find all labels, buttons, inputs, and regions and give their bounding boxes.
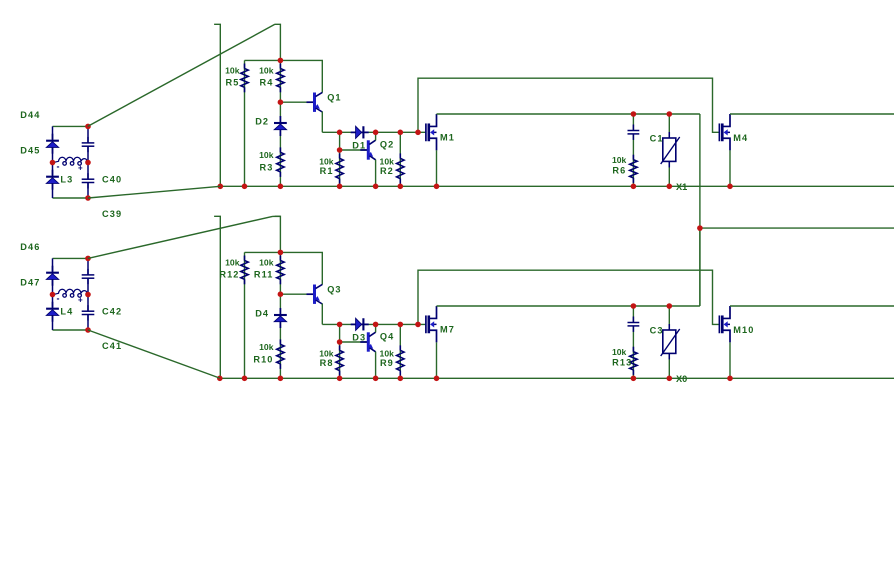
svg-text:10k: 10k xyxy=(380,156,395,166)
node C2 top xyxy=(631,111,637,117)
svg-text:X1: X1 xyxy=(676,182,687,192)
svg-text:X0: X0 xyxy=(676,374,687,384)
wire diagonal bottom rail 1 feed xyxy=(88,186,220,198)
svg-text:10k: 10k xyxy=(225,257,240,267)
node base Q3 xyxy=(278,291,284,297)
wire top row A xyxy=(245,60,323,92)
node bottom emitter Q2 xyxy=(373,184,379,190)
node varistor top C3 xyxy=(667,303,673,309)
wire source of M1 xyxy=(436,150,438,186)
node base Q1 xyxy=(278,99,284,105)
label M4 xyxy=(733,133,748,143)
wire C2 column xyxy=(632,114,634,186)
wire D2-R3 column xyxy=(279,102,281,186)
wire drain row of M1 xyxy=(437,113,700,115)
node bottom R12 xyxy=(242,376,248,382)
svg-text:Q1: Q1 xyxy=(327,93,341,103)
wire C4 column xyxy=(632,306,634,378)
wire R8 column xyxy=(339,324,341,378)
node L3 right xyxy=(85,160,91,166)
wire right column C42a/C42b xyxy=(87,258,89,330)
svg-text:L3: L3 xyxy=(60,175,73,185)
wire emitter of Q3 xyxy=(321,304,323,325)
label R9 xyxy=(380,358,394,368)
wire right column C40a/C40b xyxy=(87,126,89,198)
resistor R4 xyxy=(277,64,284,93)
wire R5 column xyxy=(244,60,246,186)
wire jog node B xyxy=(273,215,281,217)
wire bottom of L4 block xyxy=(53,329,89,331)
mosfet M4 xyxy=(719,114,730,150)
label X1 xyxy=(676,182,687,192)
svg-text:M7: M7 xyxy=(440,324,455,334)
svg-text:D1: D1 xyxy=(352,140,366,150)
label M10 xyxy=(733,325,754,335)
resistor R2 xyxy=(397,153,404,183)
capacitor C42a xyxy=(82,269,95,284)
node top junction A xyxy=(278,58,284,64)
svg-text:10k: 10k xyxy=(259,150,274,160)
node bottom varistor C3 xyxy=(667,376,673,382)
label C40 xyxy=(102,175,122,185)
label D3 xyxy=(352,332,366,342)
wire top of L4 block xyxy=(53,257,89,259)
mosfet M7 xyxy=(426,306,437,342)
svg-text:C41: C41 xyxy=(102,341,122,351)
inductor L4 xyxy=(55,289,87,305)
wire drain of M10 to edge xyxy=(730,305,894,307)
svg-text:D4: D4 xyxy=(255,309,269,319)
wire D4-R10 column xyxy=(279,294,281,378)
wire R1 column xyxy=(339,132,341,186)
transistor Q1 xyxy=(307,92,323,112)
svg-text:Q3: Q3 xyxy=(327,285,341,295)
label C41 xyxy=(102,341,122,351)
transistor Q4 xyxy=(360,332,375,352)
diode D2 xyxy=(274,116,287,136)
resistor R9 xyxy=(397,345,404,375)
node L4 left xyxy=(50,292,56,298)
node R9 top xyxy=(398,322,404,328)
wire R12 column xyxy=(244,252,246,378)
wire long feed B xyxy=(418,270,719,324)
node R2 top xyxy=(398,130,404,136)
label 10k of R13 xyxy=(612,347,627,357)
svg-text:C3: C3 xyxy=(650,325,664,335)
label R6 xyxy=(612,165,626,175)
wire base of Q1 xyxy=(280,101,314,103)
node gate feed M7 xyxy=(415,322,421,328)
node bottom R3 xyxy=(278,184,284,190)
svg-text:R11: R11 xyxy=(254,270,274,280)
node bottom R9 xyxy=(398,376,404,382)
transistor Q2 xyxy=(360,140,375,160)
wire R9 column xyxy=(399,324,401,378)
wire diagonal node A feed xyxy=(88,24,275,126)
label 10k of R2 xyxy=(380,156,395,166)
node C40a top xyxy=(85,124,91,130)
svg-text:-: - xyxy=(57,162,60,172)
node bottom R1 xyxy=(337,184,343,190)
svg-text:D46: D46 xyxy=(20,242,40,252)
node bottom R6 xyxy=(631,184,637,190)
svg-text:10k: 10k xyxy=(612,155,627,165)
label R11 xyxy=(254,270,274,280)
label R2 xyxy=(380,166,394,176)
mosfet M1 xyxy=(426,114,437,150)
wire source of M4 xyxy=(729,150,731,186)
label D44 xyxy=(20,110,40,120)
svg-text:R10: R10 xyxy=(253,354,273,364)
label M1 xyxy=(440,132,455,142)
label L3 xyxy=(60,175,73,185)
diode D46 xyxy=(46,266,59,286)
label 10k of R11 xyxy=(259,257,274,267)
svg-text:10k: 10k xyxy=(612,347,627,357)
svg-text:R13: R13 xyxy=(612,357,632,367)
resistor R6 xyxy=(630,155,637,183)
wire source of M10 xyxy=(729,342,731,378)
label M7 xyxy=(440,324,455,334)
svg-text:R5: R5 xyxy=(226,78,240,88)
node bottom source M4 xyxy=(727,184,733,190)
wire mid junction down to M7 drain row xyxy=(699,228,701,306)
wire drain row of M7 xyxy=(437,305,700,307)
node L3 left xyxy=(50,160,56,166)
svg-text:R12: R12 xyxy=(219,270,239,280)
node bottom source M1 xyxy=(434,184,440,190)
svg-text:D2: D2 xyxy=(255,117,269,127)
node L4 right xyxy=(85,292,91,298)
label R13 xyxy=(612,357,632,367)
resistor R5 xyxy=(241,64,248,93)
node base Q2 xyxy=(337,147,343,153)
wire collector of Q4 xyxy=(375,324,377,332)
wire source of M7 xyxy=(436,342,438,378)
wire bottom rail rail2 xyxy=(220,377,894,379)
svg-text:R6: R6 xyxy=(612,165,626,175)
svg-text:C42: C42 xyxy=(102,307,122,317)
svg-text:10k: 10k xyxy=(259,257,274,267)
resistor R1 xyxy=(336,153,343,183)
label D46 xyxy=(20,242,40,252)
svg-text:R1: R1 xyxy=(320,166,334,176)
svg-text:-: - xyxy=(57,294,60,304)
capacitor C4 xyxy=(628,317,640,332)
node base Q4 xyxy=(337,339,343,345)
label C39 xyxy=(102,209,122,219)
capacitor C40a xyxy=(82,137,95,152)
svg-text:L4: L4 xyxy=(60,307,73,317)
wire mid junction to right edge xyxy=(700,227,894,229)
svg-text:R9: R9 xyxy=(380,358,394,368)
label C1 xyxy=(650,133,664,143)
label 10k of R10 xyxy=(259,342,274,352)
svg-text:M4: M4 xyxy=(733,133,748,143)
svg-text:Q2: Q2 xyxy=(380,140,394,150)
capacitor C40b xyxy=(82,173,95,188)
wire emitter of Q2 xyxy=(375,160,377,187)
node bottom R5 xyxy=(242,184,248,190)
label 10k of R3 xyxy=(259,150,274,160)
wire R11 column xyxy=(279,252,281,294)
node collector Q4 xyxy=(373,322,379,328)
node collector Q2 xyxy=(373,130,379,136)
wire bottom rail rail1 xyxy=(220,185,894,187)
node bottom varistor C1 xyxy=(667,184,673,190)
label 10k of R1 xyxy=(319,156,334,166)
diode D3 xyxy=(351,318,369,330)
inductor L3 xyxy=(55,157,87,173)
node C4 top xyxy=(631,303,637,309)
wire emitter of Q4 xyxy=(375,352,377,379)
wire base of Q2 xyxy=(340,149,369,151)
wire base of Q3 xyxy=(280,293,314,295)
diode D44 xyxy=(46,134,59,154)
svg-text:M10: M10 xyxy=(733,325,754,335)
wire stub+vertical V2 xyxy=(214,216,220,378)
capacitor C2 xyxy=(628,125,640,140)
label R5 xyxy=(226,78,240,88)
label D2 xyxy=(255,117,269,127)
label D47 xyxy=(20,278,40,288)
label 10k of R5 xyxy=(225,65,240,75)
svg-text:D45: D45 xyxy=(20,146,40,156)
wire M1 drain to mid junction xyxy=(699,114,701,306)
varistor near C3 xyxy=(661,324,680,359)
label R12 xyxy=(219,270,239,280)
wire left column D44/D45 xyxy=(52,126,54,198)
wire diagonal node B feed xyxy=(88,216,273,258)
label C42 xyxy=(102,307,122,317)
capacitor C42b xyxy=(82,305,95,320)
resistor R10 xyxy=(277,339,284,369)
resistor R13 xyxy=(630,347,637,375)
node bottom emitter Q4 xyxy=(373,376,379,382)
label D45 xyxy=(20,146,40,156)
label 10k of R12 xyxy=(225,257,240,267)
wire bottom of L3 block xyxy=(53,197,89,199)
label Q3 xyxy=(327,285,341,295)
wire varistor column C3 xyxy=(668,306,670,378)
label R1 xyxy=(320,166,334,176)
diode D4 xyxy=(274,308,287,328)
label L4 xyxy=(60,307,73,317)
node bottom source M7 xyxy=(434,376,440,382)
svg-text:R3: R3 xyxy=(260,162,274,172)
node bottom left xyxy=(217,376,223,382)
resistor R11 xyxy=(277,256,284,285)
svg-text:C39: C39 xyxy=(102,209,122,219)
label Q4 xyxy=(380,332,394,342)
svg-text:C1: C1 xyxy=(650,133,664,143)
node top junction B xyxy=(278,250,284,256)
wire top of L3 block xyxy=(53,125,89,127)
svg-text:D47: D47 xyxy=(20,278,40,288)
node C42a top xyxy=(85,256,91,262)
svg-text:10k: 10k xyxy=(259,65,274,75)
mosfet M10 xyxy=(719,306,730,342)
resistor R8 xyxy=(336,345,343,375)
varistor near C1 xyxy=(661,132,680,167)
diode D47 xyxy=(46,302,59,322)
svg-text:M1: M1 xyxy=(440,132,455,142)
svg-text:D3: D3 xyxy=(352,332,366,342)
svg-text:R2: R2 xyxy=(380,166,394,176)
label Q1 xyxy=(327,93,341,103)
wire vertical into node A xyxy=(275,24,281,60)
wire gate row node xyxy=(322,131,426,133)
node varistor top C1 xyxy=(667,111,673,117)
svg-text:10k: 10k xyxy=(319,348,334,358)
wire varistor column C1 xyxy=(668,114,670,186)
label 10k of R6 xyxy=(612,155,627,165)
node bottom R8 xyxy=(337,376,343,382)
diode D45 xyxy=(46,170,59,190)
wire emitter of Q1 xyxy=(321,112,323,133)
wire collector of Q2 xyxy=(375,132,377,140)
svg-text:R8: R8 xyxy=(320,358,334,368)
wire drain of M4 to edge xyxy=(730,113,894,115)
label C3 xyxy=(650,325,664,335)
svg-text:D44: D44 xyxy=(20,110,40,120)
node C42b bottom xyxy=(85,327,91,333)
label 10k of R8 xyxy=(319,348,334,358)
wire R2 column xyxy=(399,132,401,186)
wire diagonal bottom rail 2 feed xyxy=(88,330,220,378)
node bottom R10 xyxy=(278,376,284,382)
diode D1 xyxy=(351,126,369,138)
wire base of Q4 xyxy=(340,341,369,343)
node C40b bottom xyxy=(85,195,91,201)
node mid junction xyxy=(697,225,703,231)
wire R4 column xyxy=(279,60,281,102)
svg-text:+: + xyxy=(78,296,83,305)
resistor R3 xyxy=(277,147,284,177)
node R8 top xyxy=(337,322,343,328)
label R8 xyxy=(320,358,334,368)
node bottom R13 xyxy=(631,376,637,382)
wire stub+vertical V1 xyxy=(214,24,220,186)
svg-text:+: + xyxy=(78,164,83,173)
svg-text:Q4: Q4 xyxy=(380,332,394,342)
label Q2 xyxy=(380,140,394,150)
node bottom source M10 xyxy=(727,376,733,382)
svg-text:10k: 10k xyxy=(225,65,240,75)
label 10k of R9 xyxy=(380,348,395,358)
wire top row B xyxy=(245,252,323,284)
node gate feed M1 xyxy=(415,130,421,136)
resistor R12 xyxy=(241,256,248,285)
label X0 xyxy=(676,374,687,384)
label D1 xyxy=(352,140,366,150)
label R3 xyxy=(260,162,274,172)
svg-text:R4: R4 xyxy=(260,78,274,88)
node bottom R2 xyxy=(398,184,404,190)
wire vertical into node B xyxy=(275,216,281,252)
label D4 xyxy=(255,309,269,319)
wire left column D46/D47 xyxy=(52,258,54,330)
node bottom left xyxy=(218,184,224,190)
svg-text:10k: 10k xyxy=(319,156,334,166)
svg-text:C40: C40 xyxy=(102,175,122,185)
wire gate row node xyxy=(322,323,426,325)
transistor Q3 xyxy=(307,284,323,304)
svg-text:10k: 10k xyxy=(259,342,274,352)
label 10k of R4 xyxy=(259,65,274,75)
node R1 top xyxy=(337,130,343,136)
svg-text:10k: 10k xyxy=(380,348,395,358)
label R10 xyxy=(253,354,273,364)
label R4 xyxy=(260,78,274,88)
wire long feed A xyxy=(418,78,719,132)
